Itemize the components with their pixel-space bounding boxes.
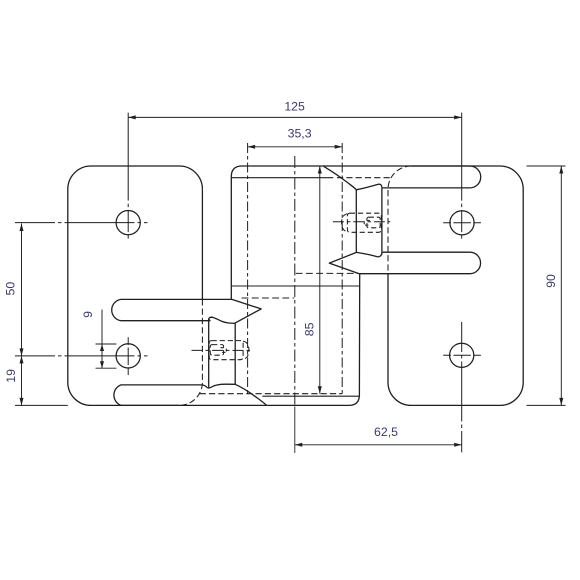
left plate hidden right edge (behind lower leaf): [179, 299, 202, 405]
lower leaf hidden bend line: [200, 393, 343, 395]
right plate hidden left edge (behind upper leaf): [388, 166, 411, 274]
svg-text:19: 19: [4, 369, 18, 383]
hidden finger edge behind lower leaf: [296, 272, 359, 274]
svg-text:50: 50: [3, 282, 17, 296]
svg-text:62,5: 62,5: [374, 425, 398, 439]
hole top-right: [450, 211, 474, 235]
hole top-left: [116, 211, 140, 235]
svg-text:85: 85: [302, 322, 316, 336]
centerline vertical top-right hole (125 extension): [461, 113, 463, 241]
centerline horizontal bottom-left hole: [15, 355, 148, 357]
svg-text:125: 125: [284, 100, 305, 114]
upper pin axis centerline: [333, 221, 390, 223]
dimension 125: [128, 116, 462, 118]
centerline vertical top-left hole (125 extension): [127, 113, 129, 241]
lower knuckle (barrel): [208, 317, 267, 405]
upper leaf inner bend line: [231, 177, 333, 179]
upper leaf body (top rectangle with fingers to the right): [231, 166, 480, 286]
centerline vertical bottom-right hole (62,5 extension): [461, 322, 463, 452]
upper leaf spike notch: [329, 252, 360, 274]
lower leaf spike notch: [232, 299, 261, 323]
lower pin axis centerline: [192, 349, 251, 351]
svg-text:90: 90: [544, 274, 558, 288]
lower leaf upper finger: [112, 299, 232, 320]
dimension 9 (hole diameter) with stubs: [96, 310, 117, 369]
hidden vertical at upper pin tip (35,3 extension): [341, 143, 343, 394]
central vertical centerline: [294, 156, 296, 405]
upper knuckle pin (hidden): [342, 213, 382, 232]
centerline horizontal top-left hole: [15, 222, 148, 224]
lower leaf left edge upper segment: [230, 286, 232, 299]
lower leaf body (bottom rectangle with fingers to the left): [112, 274, 360, 405]
dimension 19 with bottom extension: [21, 356, 23, 406]
hidden finger edge behind upper leaf: [242, 297, 295, 299]
central vertical centerline lower extension (62,5): [294, 407, 296, 453]
upper leaf hidden bend line behind knuckle: [337, 177, 391, 179]
centerline vertical bottom-left hole: [127, 337, 129, 375]
svg-text:9: 9: [81, 311, 95, 318]
left mounting plate: [68, 166, 203, 405]
dimension 35,3: [248, 146, 343, 148]
hole bottom-right: [450, 343, 474, 367]
upper knuckle (barrel): [324, 166, 383, 256]
dimension 62,5: [295, 444, 462, 446]
lower knuckle pin (hidden): [209, 341, 249, 360]
hidden vertical at lower pin tip (35,3 extension): [247, 143, 249, 394]
right mounting plate: [388, 166, 523, 405]
lower leaf inner bend line: [262, 395, 359, 397]
centerline horizontal top-right hole: [443, 222, 481, 224]
svg-text:35,3: 35,3: [288, 127, 312, 141]
upper leaf lower finger: [360, 252, 481, 274]
dimension 90 with extension lines: [527, 166, 566, 405]
junction line between the two leaves: [231, 285, 359, 287]
dimension 50: [21, 224, 23, 356]
hole bottom-left: [116, 344, 140, 368]
centerline horizontal bottom-right hole: [443, 354, 481, 356]
dimension 85: [319, 166, 321, 394]
